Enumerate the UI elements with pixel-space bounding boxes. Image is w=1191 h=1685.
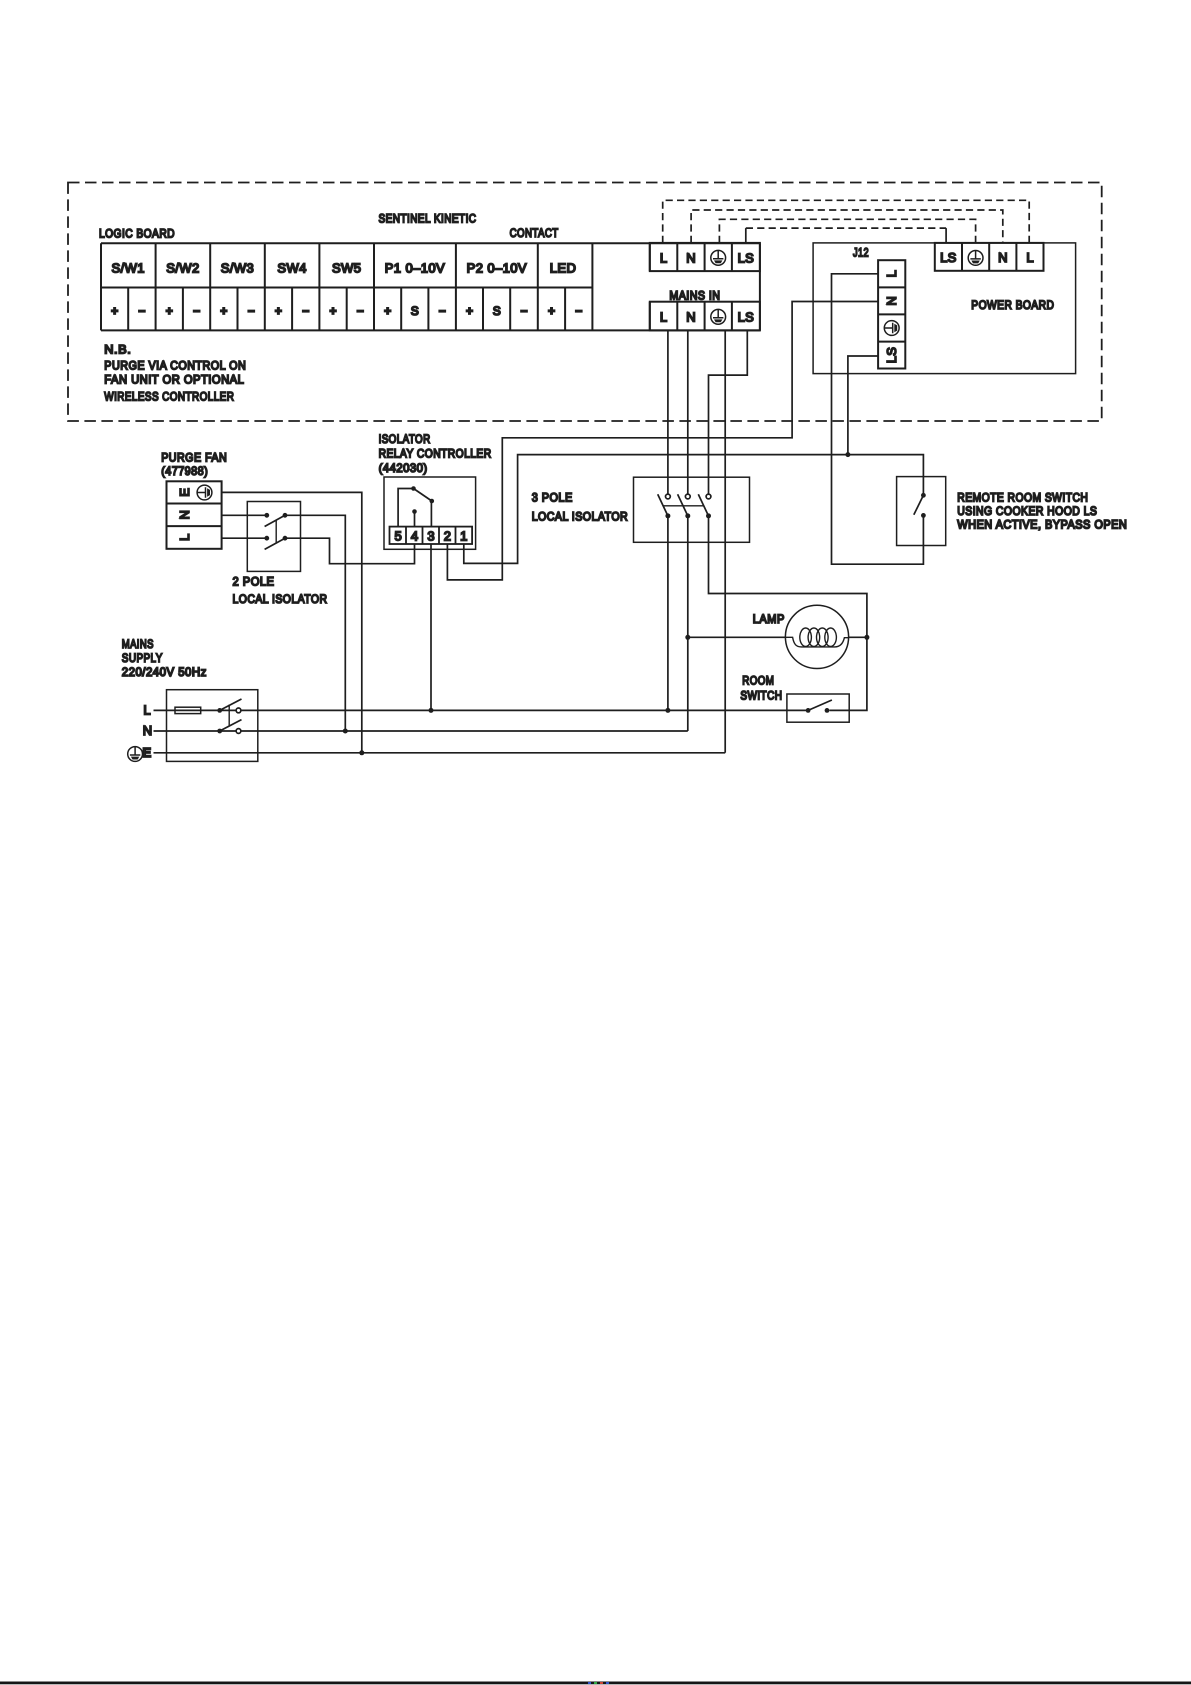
earth symbol in CONTACT row <box>711 250 726 265</box>
svg-text:SUPPLY: SUPPLY <box>122 651 163 665</box>
svg-text:LOGIC BOARD: LOGIC BOARD <box>99 226 175 240</box>
wire MAINS IN PE down to mains E line <box>724 330 726 752</box>
mains switch L pole contacts and blade <box>217 708 222 713</box>
3 pole isolator pole 2 <box>685 494 690 499</box>
svg-text:FAN UNIT OR OPTIONAL: FAN UNIT OR OPTIONAL <box>104 373 244 387</box>
svg-text:−: − <box>248 304 255 318</box>
dashed wire CONTACT N to POWER BOARD N <box>691 210 1003 243</box>
wire 3 pole pole2 down to mains N line end <box>687 516 689 731</box>
svg-text:LS: LS <box>738 250 755 265</box>
svg-text:5: 5 <box>394 528 401 543</box>
svg-text:N.B.: N.B. <box>104 342 131 356</box>
connector J12 terminal column L N PE LS <box>878 260 905 368</box>
svg-text:SENTINEL KINETIC: SENTINEL KINETIC <box>379 212 477 226</box>
svg-text:S: S <box>493 304 501 318</box>
svg-text:S/W1: S/W1 <box>112 261 145 276</box>
svg-text:N: N <box>177 510 192 519</box>
svg-text:3: 3 <box>427 528 434 543</box>
2 pole isolator box <box>247 502 300 572</box>
wire MAINS IN L down to 3 pole isolator pole 1 <box>667 330 669 494</box>
svg-text:WHEN ACTIVE, BYPASS OPEN: WHEN ACTIVE, BYPASS OPEN <box>957 518 1127 532</box>
3 pole isolator pole 1 <box>666 494 671 499</box>
page footer rule <box>0 1682 1191 1685</box>
relay switch symbol: pin5 riser and common contact <box>398 489 413 527</box>
svg-text:N: N <box>143 723 152 738</box>
earth symbol in power board terminal row <box>968 251 983 266</box>
wire purge fan E to mains E line <box>222 492 362 752</box>
svg-text:N: N <box>884 296 899 305</box>
dashed wire CONTACT L to POWER BOARD L <box>663 200 1029 243</box>
svg-text:L: L <box>660 310 667 325</box>
earth symbol in J12 connector <box>884 321 899 336</box>
wire purge fan N to 2 pole isolator <box>222 514 267 516</box>
svg-text:WIRELESS CONTROLLER: WIRELESS CONTROLLER <box>104 390 234 404</box>
power board outline <box>813 243 1076 374</box>
svg-text:S: S <box>411 304 419 318</box>
svg-text:L: L <box>1026 250 1033 265</box>
svg-text:N: N <box>686 310 695 325</box>
wire relay pin 3 to mains L line <box>430 544 432 710</box>
svg-text:+: + <box>384 304 391 318</box>
svg-text:+: + <box>275 304 282 318</box>
svg-text:LS: LS <box>940 250 957 265</box>
wire 2 pole isolator pole1 out to mains N line <box>285 515 345 731</box>
junction dot J12 LS / pin1 net <box>845 452 850 457</box>
3 pole isolator pole 3 <box>706 494 711 499</box>
svg-text:LED: LED <box>550 261 577 276</box>
svg-text:L: L <box>884 270 899 277</box>
svg-text:LS: LS <box>738 310 755 325</box>
svg-text:USING COOKER HOOD LS: USING COOKER HOOD LS <box>957 504 1097 518</box>
svg-text:220/240V 50Hz: 220/240V 50Hz <box>122 665 207 679</box>
remote room switch box <box>897 477 946 546</box>
junction dot on mains N line <box>343 729 348 734</box>
relay pin4 riser with open contact <box>414 512 416 527</box>
wire lamp left lead from pole2 wire <box>688 636 786 638</box>
2 pole isolator pole 1 contacts and blade <box>264 513 269 518</box>
earth symbol in purge fan E row <box>197 485 212 500</box>
room switch box <box>787 694 849 722</box>
2 pole isolator mechanical link <box>275 520 277 543</box>
svg-text:+: + <box>111 304 118 318</box>
svg-text:2 POLE: 2 POLE <box>233 574 275 588</box>
mains switch mechanical link <box>228 705 230 726</box>
svg-text:−: − <box>520 304 527 318</box>
wire J12 N to relay controller pin 2 <box>447 302 878 580</box>
svg-text:LOCAL ISOLATOR: LOCAL ISOLATOR <box>233 592 328 606</box>
svg-text:SW4: SW4 <box>277 261 306 276</box>
svg-text:N: N <box>686 250 695 265</box>
svg-text:4: 4 <box>411 528 418 543</box>
wire 3 pole pole1 to mains L line <box>667 516 669 711</box>
earth symbol at mains supply E <box>128 747 143 762</box>
lamp bulb circle <box>785 605 848 668</box>
svg-text:+: + <box>329 304 336 318</box>
svg-text:ISOLATOR: ISOLATOR <box>379 432 431 446</box>
svg-text:SWITCH: SWITCH <box>740 689 782 703</box>
power board terminal row LS PE N L <box>935 243 1044 271</box>
svg-text:1: 1 <box>460 528 467 543</box>
svg-text:S/W2: S/W2 <box>166 261 199 276</box>
svg-text:+: + <box>166 304 173 318</box>
footer colour marks <box>588 1682 591 1684</box>
svg-text:E: E <box>142 745 151 760</box>
logic board terminal block grid <box>101 243 760 330</box>
wire MAINS IN LS down to 3 pole isolator pole 3 <box>709 330 748 494</box>
svg-text:(442030): (442030) <box>379 461 428 475</box>
svg-text:−: − <box>357 304 364 318</box>
wire purge fan L to 2 pole isolator <box>222 537 267 539</box>
CONTACT terminal row L N PE LS <box>650 243 760 271</box>
svg-text:J12: J12 <box>853 246 869 260</box>
svg-text:L: L <box>177 534 192 541</box>
svg-text:ROOM: ROOM <box>742 673 774 687</box>
junction dot lamp tap on pole2 wire <box>685 635 690 640</box>
earth symbol in MAINS IN row <box>711 309 726 324</box>
svg-text:−: − <box>575 304 582 318</box>
relay pin3 riser <box>430 501 432 527</box>
svg-text:MAINS: MAINS <box>122 637 154 651</box>
relay controller box <box>384 477 476 549</box>
wire lamp right lead to right rail <box>849 636 867 638</box>
svg-text:RELAY CONTROLLER: RELAY CONTROLLER <box>379 447 492 461</box>
svg-text:P1 0–10V: P1 0–10V <box>385 261 445 276</box>
svg-text:−: − <box>302 304 309 318</box>
svg-text:+: + <box>548 304 555 318</box>
fan unit enclosure (dashed outline) <box>68 183 1102 422</box>
mains N line to 3 pole pole2 rail <box>154 730 688 732</box>
mains E line <box>154 752 726 754</box>
svg-text:−: − <box>439 304 446 318</box>
MAINS IN terminal row L N PE LS <box>650 302 760 331</box>
svg-text:REMOTE ROOM SWITCH: REMOTE ROOM SWITCH <box>957 491 1088 505</box>
svg-text:LAMP: LAMP <box>753 612 785 626</box>
dashed wire CONTACT LS to POWER BOARD LS <box>746 227 946 229</box>
junction dot on mains E line <box>359 750 364 755</box>
svg-text:MAINS IN: MAINS IN <box>669 289 720 303</box>
svg-text:+: + <box>220 304 227 318</box>
svg-text:N: N <box>998 250 1007 265</box>
svg-text:SW5: SW5 <box>332 261 361 276</box>
room switch contacts and blade <box>806 708 811 713</box>
svg-text:PURGE FAN: PURGE FAN <box>161 451 227 465</box>
junction dot on mains L line (pin3) <box>429 708 434 713</box>
svg-text:PURGE VIA CONTROL ON: PURGE VIA CONTROL ON <box>104 358 246 372</box>
svg-text:P2 0–10V: P2 0–10V <box>467 261 527 276</box>
relay terminal strip pins 5 4 3 2 1 <box>390 527 473 544</box>
svg-text:−: − <box>138 304 145 318</box>
wire 2 pole isolator pole2 out to relay pin 4 <box>285 538 415 564</box>
svg-text:L: L <box>660 250 667 265</box>
svg-text:L: L <box>143 703 150 718</box>
svg-text:2: 2 <box>444 528 451 543</box>
svg-text:S/W3: S/W3 <box>221 261 254 276</box>
3 pole isolator box <box>634 477 750 542</box>
relay blade <box>414 489 432 502</box>
lamp filament leads <box>785 637 848 647</box>
2 pole isolator pole 2 contacts and blade <box>264 536 269 541</box>
junction dot lamp right rail <box>864 635 869 640</box>
svg-text:3 POLE: 3 POLE <box>532 491 573 505</box>
wire J12 L to remote room switch bottom contact <box>832 274 924 564</box>
svg-text:POWER BOARD: POWER BOARD <box>971 298 1054 312</box>
mains L line with fuse and switch to room switch left contact <box>154 709 809 711</box>
purge fan terminal box E N L <box>167 481 222 549</box>
dashed wire CONTACT PE to POWER BOARD PE <box>719 219 975 243</box>
lamp filament coil loops <box>800 628 812 646</box>
3 pole isolator mechanical link <box>663 505 704 507</box>
wire relay controller pin 1 to remote room switch top contact <box>464 455 924 564</box>
svg-text:−: − <box>193 304 200 318</box>
svg-text:(477988): (477988) <box>161 464 208 478</box>
svg-text:E: E <box>177 488 192 497</box>
svg-text:+: + <box>466 304 473 318</box>
svg-text:LS: LS <box>884 347 899 364</box>
remote room switch contacts and blade <box>921 493 926 498</box>
svg-text:LOCAL ISOLATOR: LOCAL ISOLATOR <box>532 510 629 524</box>
fuse on mains L <box>175 707 201 713</box>
wire J12 LS to pin1 net junction <box>848 356 878 455</box>
svg-text:CONTACT: CONTACT <box>510 226 559 240</box>
junction dot on mains L line (pole1) <box>665 708 670 713</box>
mains supply box <box>167 690 258 762</box>
wire MAINS IN N down to 3 pole isolator pole 2 <box>687 330 689 494</box>
mains switch N pole contacts and blade <box>217 729 222 734</box>
wire 3 pole pole3 to lamp/room-switch right rail <box>709 516 867 711</box>
